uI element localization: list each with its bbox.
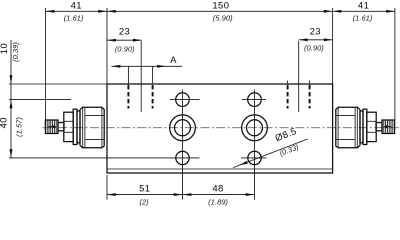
svg-text:48: 48 bbox=[212, 184, 223, 195]
svg-text:10: 10 bbox=[0, 43, 10, 54]
top dimension line bbox=[46, 10, 395, 12]
left valve hex nut bbox=[64, 112, 73, 141]
extension block right edge up bbox=[332, 8, 334, 84]
node column centerline right bbox=[254, 90, 256, 200]
svg-text:(1.89): (1.89) bbox=[208, 198, 228, 207]
svg-text:(0.90): (0.90) bbox=[304, 43, 324, 52]
hidden hole right solid stubs bbox=[287, 81, 289, 85]
node column centerline left bbox=[182, 90, 184, 200]
right valve knob arrow bbox=[383, 125, 392, 129]
left valve: adjusting knob bbox=[45, 120, 58, 134]
right valve hex nut bbox=[367, 112, 376, 141]
svg-text:23: 23 bbox=[310, 26, 321, 37]
port mid-right outer circle bbox=[242, 115, 268, 141]
left valve washer bbox=[73, 109, 77, 144]
port top-left crosshair bbox=[170, 99, 200, 101]
right valve stem bbox=[376, 123, 382, 131]
left dim arrows bbox=[10, 75, 13, 84]
diameter leader line bbox=[233, 139, 308, 168]
extension block left edge up bbox=[106, 8, 108, 84]
dim 23 left bbox=[107, 39, 142, 41]
right valve body bbox=[336, 107, 360, 148]
top dim arrows bbox=[46, 10, 55, 13]
left valve body bbox=[80, 107, 104, 148]
port bottom-right circle bbox=[248, 151, 261, 164]
hidden hole right centerline / 23 extension bbox=[298, 41, 300, 112]
extension block left down bbox=[106, 175, 108, 200]
hidden hole left centerline / 23 extension bbox=[140, 41, 142, 112]
svg-text:23: 23 bbox=[119, 26, 130, 37]
extension block top edge left bbox=[9, 83, 107, 85]
valve block body outline bbox=[107, 84, 333, 173]
right valve washer bbox=[363, 109, 367, 144]
extension top port row bbox=[9, 99, 71, 101]
hidden hex hole right: edges bbox=[287, 85, 289, 109]
svg-text:(0.39): (0.39) bbox=[11, 42, 20, 62]
left vertical dimension line bbox=[10, 40, 12, 158]
dim 23 right bbox=[299, 39, 333, 41]
right valve knob bbox=[382, 120, 395, 134]
block bottom chamfer line bbox=[107, 168, 333, 170]
port top-right circle bbox=[248, 93, 262, 107]
svg-text:(5.90): (5.90) bbox=[213, 13, 233, 22]
port bottom-left circle bbox=[176, 151, 189, 164]
port mid-left inner circle bbox=[175, 120, 191, 136]
port top-right crosshair bbox=[242, 99, 266, 101]
port mid-left outer circle bbox=[170, 115, 196, 141]
extension line left valve end bbox=[45, 8, 47, 120]
extension line right valve end bbox=[394, 8, 396, 120]
svg-text:150: 150 bbox=[212, 0, 229, 11]
extension bottom port row bbox=[9, 157, 200, 159]
bottom dim arrows bbox=[107, 193, 116, 196]
hidden hole left solid stubs above block bbox=[127, 66, 129, 84]
left valve knob arrow bbox=[48, 125, 57, 129]
svg-text:(1.61): (1.61) bbox=[64, 13, 84, 22]
svg-text:(2): (2) bbox=[139, 197, 149, 206]
bottom dimension line bbox=[107, 194, 255, 196]
left valve washer step bbox=[77, 111, 80, 143]
port bottom-right crosshair bbox=[241, 157, 267, 159]
port mid-right inner circle bbox=[247, 120, 263, 136]
port top-left circle bbox=[176, 93, 190, 107]
svg-text:(1.61): (1.61) bbox=[353, 14, 373, 23]
hidden hex hole left: edges bbox=[127, 85, 129, 109]
right valve washer step bbox=[360, 111, 363, 143]
main horizontal centerline bbox=[43, 127, 399, 129]
left valve stem bbox=[58, 123, 64, 131]
svg-text:41: 41 bbox=[358, 0, 369, 11]
svg-text:40: 40 bbox=[0, 117, 9, 128]
svg-text:41: 41 bbox=[71, 0, 82, 11]
svg-text:(1.57): (1.57) bbox=[14, 117, 23, 137]
section line A bbox=[112, 65, 183, 67]
svg-text:A: A bbox=[170, 55, 177, 66]
svg-text:(0.90): (0.90) bbox=[115, 45, 135, 54]
svg-text:51: 51 bbox=[139, 184, 150, 195]
